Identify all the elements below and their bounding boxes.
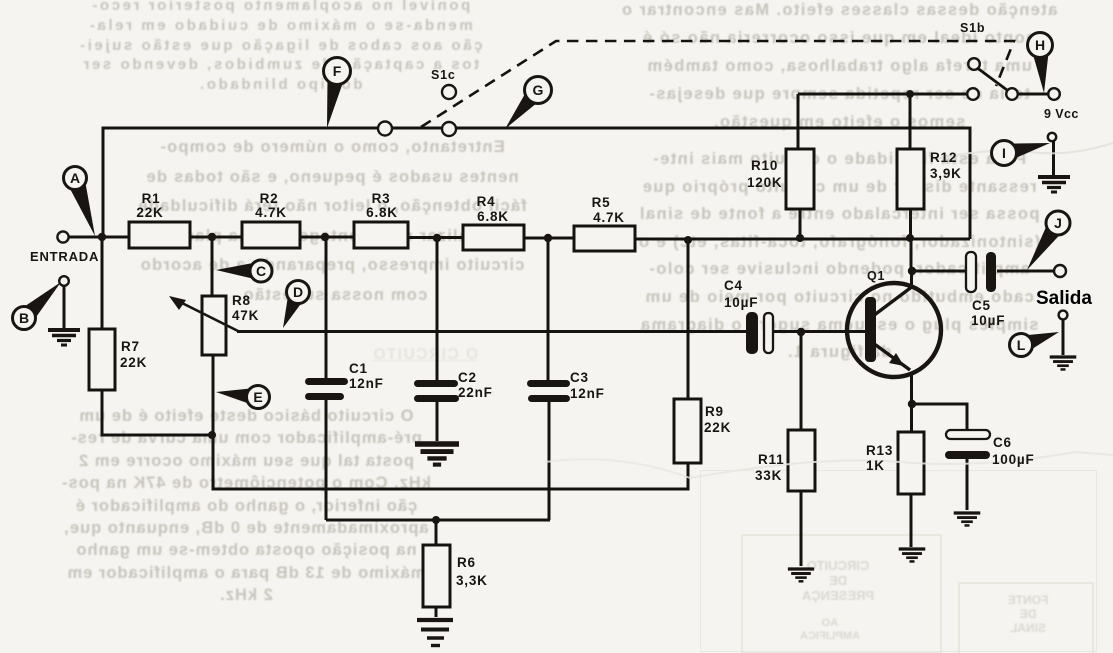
svg-text:R5: R5 <box>592 195 611 210</box>
svg-text:R7: R7 <box>121 339 140 354</box>
svg-text:R11: R11 <box>758 452 784 467</box>
svg-text:R1: R1 <box>142 191 161 206</box>
svg-text:R10: R10 <box>751 158 778 173</box>
svg-text:G: G <box>533 82 544 98</box>
svg-text:C2: C2 <box>458 370 477 385</box>
svg-text:10µF: 10µF <box>724 295 758 310</box>
svg-text:D: D <box>293 284 303 300</box>
svg-text:22K: 22K <box>704 420 731 435</box>
svg-text:J: J <box>1054 215 1062 231</box>
svg-text:4.7K: 4.7K <box>593 210 625 225</box>
svg-text:I: I <box>1002 145 1006 161</box>
svg-text:120K: 120K <box>747 175 782 190</box>
svg-text:H: H <box>1035 37 1045 53</box>
svg-text:100µF: 100µF <box>992 452 1035 467</box>
svg-text:C1: C1 <box>349 361 368 376</box>
svg-text:22nF: 22nF <box>458 385 493 400</box>
svg-text:S1b: S1b <box>960 21 985 35</box>
svg-text:Q1: Q1 <box>867 269 885 283</box>
svg-text:E: E <box>253 389 262 405</box>
svg-text:Salida: Salida <box>1036 288 1092 309</box>
svg-text:4.7K: 4.7K <box>255 205 287 220</box>
svg-text:6.8K: 6.8K <box>477 209 509 224</box>
svg-text:R2: R2 <box>260 191 279 206</box>
svg-text:A: A <box>70 170 80 186</box>
svg-text:R13: R13 <box>866 443 893 458</box>
svg-text:R8: R8 <box>232 293 251 308</box>
svg-text:R9: R9 <box>705 404 724 419</box>
svg-text:3,9K: 3,9K <box>930 166 962 181</box>
svg-text:ENTRADA: ENTRADA <box>30 249 99 264</box>
svg-text:R6: R6 <box>457 555 476 570</box>
svg-text:R12: R12 <box>930 150 957 165</box>
svg-text:C6: C6 <box>993 435 1012 450</box>
svg-text:22K: 22K <box>136 205 163 220</box>
svg-text:B: B <box>19 310 29 326</box>
svg-text:9 Vcc: 9 Vcc <box>1044 107 1079 121</box>
svg-text:C3: C3 <box>570 370 589 385</box>
svg-text:S1c: S1c <box>431 68 456 82</box>
svg-text:F: F <box>333 63 342 79</box>
svg-text:C4: C4 <box>724 278 743 293</box>
svg-text:R4: R4 <box>477 194 496 209</box>
svg-text:33K: 33K <box>755 468 782 483</box>
svg-text:L: L <box>1017 337 1026 353</box>
svg-text:47K: 47K <box>232 308 259 323</box>
svg-text:6.8K: 6.8K <box>366 205 398 220</box>
svg-text:C5: C5 <box>972 298 991 313</box>
svg-text:12nF: 12nF <box>349 376 384 391</box>
svg-text:22K: 22K <box>120 355 147 370</box>
svg-text:1K: 1K <box>866 458 885 473</box>
svg-text:R3: R3 <box>372 191 391 206</box>
svg-text:12nF: 12nF <box>570 386 605 401</box>
svg-text:10µF: 10µF <box>971 313 1005 328</box>
svg-text:C: C <box>256 263 266 279</box>
svg-text:3,3K: 3,3K <box>456 573 488 588</box>
